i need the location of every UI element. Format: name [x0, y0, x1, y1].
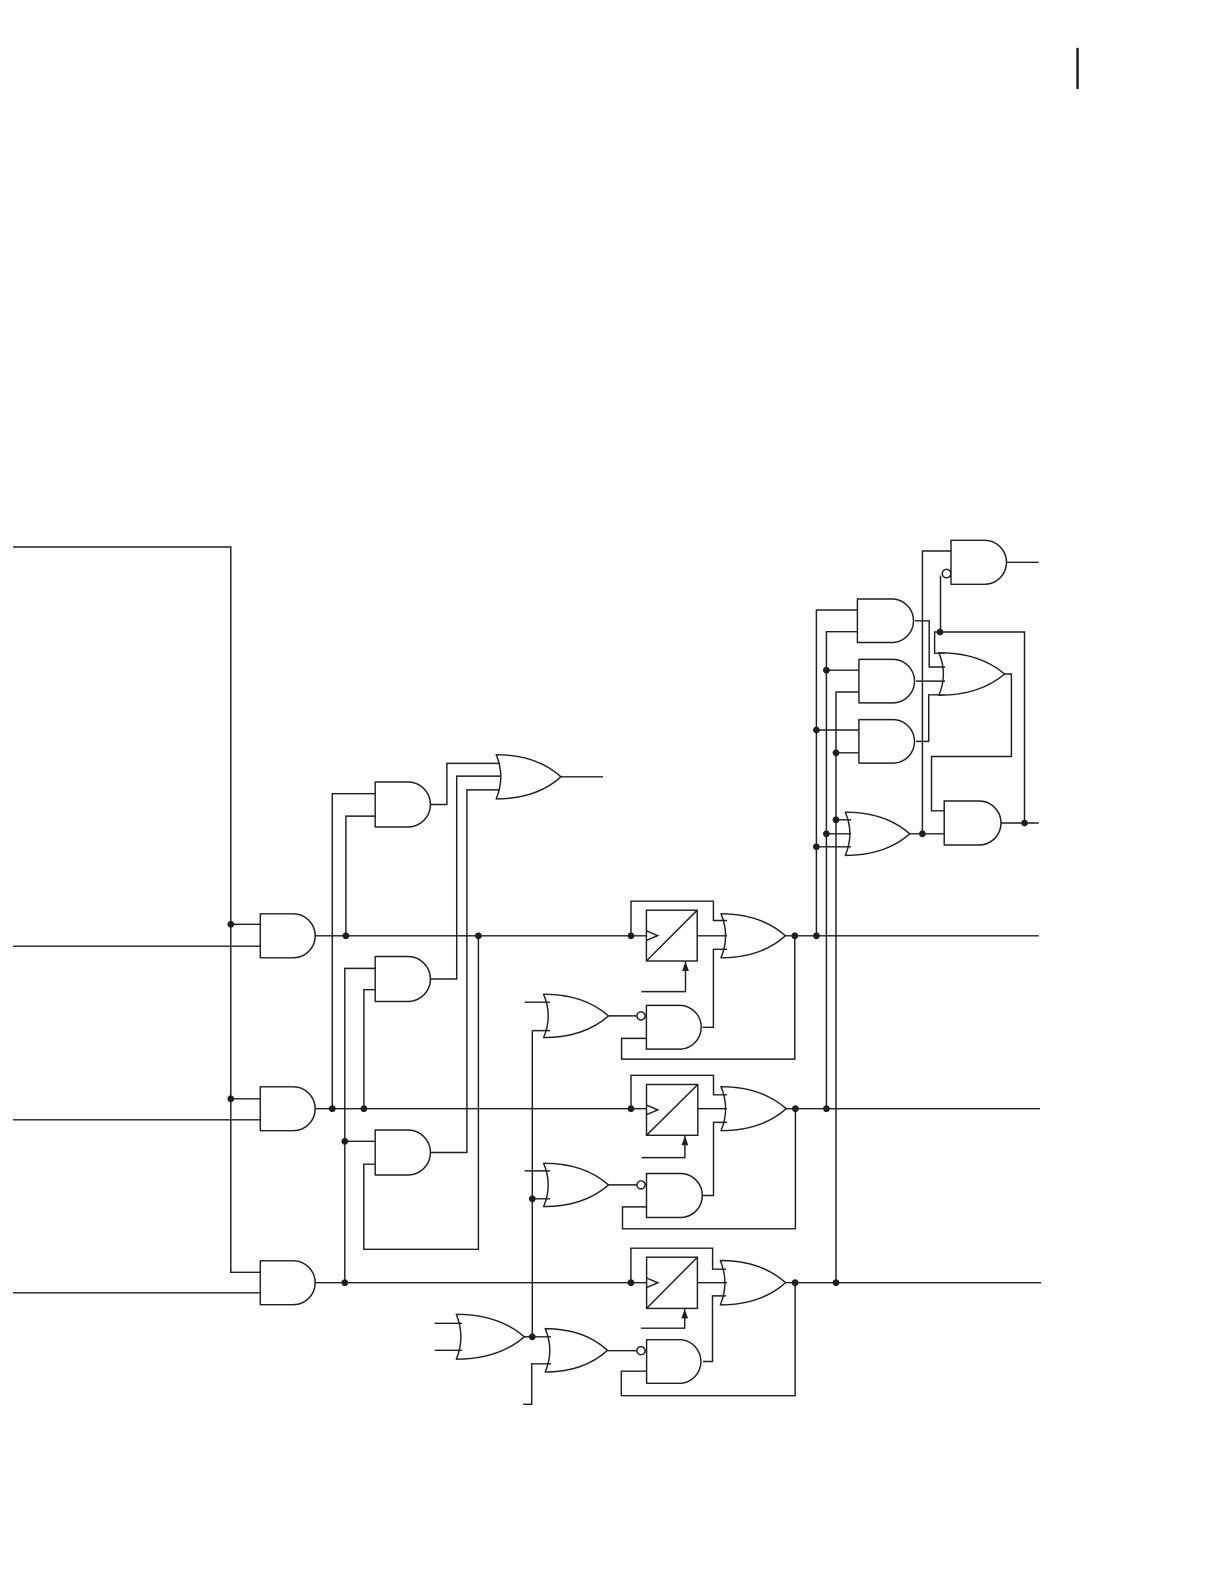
and-gate A1 (row1*row2) — [375, 782, 430, 827]
flip-flop FF3 (latch row3) — [647, 1257, 698, 1308]
wire U-top output — [1007, 561, 1039, 563]
or-gate OR3B (row3 enable OR) — [545, 1329, 607, 1372]
wire R2 to OR3b middle input — [826, 833, 851, 835]
wire row1 bus (OR1R out to right edge) — [785, 935, 1038, 937]
wire FF3 bypass over box to OR3R top — [631, 1248, 726, 1283]
nand-gate U-top (AND w/ inverted input) — [951, 540, 1007, 584]
clock arrow FF3 — [681, 1309, 688, 1319]
wire A2 out to OR-T — [430, 776, 500, 979]
wire node up to U-top bubble — [940, 576, 942, 632]
junction row2 / feedback — [792, 1105, 799, 1112]
wire OR3A top input stub — [435, 1322, 462, 1324]
wire OR2L top input stub — [525, 1170, 550, 1172]
wire right net R1 vertical — [816, 610, 857, 936]
junction input-L / G1 top — [227, 921, 234, 928]
bubble NAND3 input — [637, 1347, 645, 1355]
wire A1 top input from row2 net — [332, 794, 375, 1109]
wire OR3b out to AND4 — [910, 833, 944, 835]
wire bubble net (AND4 out up to node) — [940, 632, 1025, 823]
and-gate AND1 (R1*R2) — [857, 599, 913, 643]
junction row3 bus / FF3 bypass — [628, 1279, 635, 1286]
nand-gate NAND2 (row2 hold) — [647, 1174, 703, 1218]
wire input row1 (left edge) — [13, 945, 260, 947]
or-gate OR2c (carry OR, 4-input) — [939, 653, 1005, 696]
wire AND1 out to OR2c — [915, 621, 945, 667]
wire clk to OR1L bottom input — [532, 1030, 550, 1032]
or-gate OR2L (row2 enable OR) — [544, 1163, 609, 1206]
wire row2 feedback to NAND2 — [623, 1109, 796, 1229]
wire row1 feedback to NAND1 — [622, 936, 795, 1059]
wire NAND2 out to OR2R bottom — [702, 1122, 727, 1195]
wire input-L to G1 top input — [231, 923, 260, 925]
wire A3 bottom input from row1 net (detour) — [364, 936, 479, 1250]
wire R3 to AND3 bottom — [836, 752, 859, 754]
junction AND4 out / U-top bubble net — [1021, 820, 1028, 827]
wire U-top top-input vertical — [922, 551, 951, 834]
or-gate OR1L (row1 enable OR) — [544, 994, 609, 1037]
and-gate G2 (row2 input AND) — [260, 1087, 315, 1131]
and-gate A2 (row2*row3) — [375, 957, 430, 1002]
or-gate OR3A (row3 pre-OR) — [456, 1314, 524, 1359]
wire FF1 clock stub — [641, 961, 685, 992]
or-gate OR-T (majority output) — [496, 755, 561, 799]
wire FF2 clock stub — [642, 1135, 685, 1157]
clock arrow FF1 — [682, 962, 689, 972]
wire NAND1 out to OR1R bottom — [703, 949, 727, 1027]
junction R2 / row2 bus — [823, 1105, 830, 1112]
bubble NAND1 input — [637, 1012, 645, 1020]
wire row2 bus (OR2R out to right edge) — [786, 1108, 1040, 1110]
wire row1 FF1 out to OR1R — [697, 935, 727, 937]
wire row2 FF2 out to OR2R — [698, 1108, 727, 1110]
junction input-L / G2 top — [227, 1095, 234, 1102]
junction R3 / OR3b top — [833, 816, 840, 823]
nand-gate NAND1 (row1 hold) — [646, 1005, 701, 1049]
flip-flop FF1 (latch row1) — [646, 910, 697, 961]
wire OR3B out to NAND3 bubble — [608, 1350, 637, 1352]
junction row2 / A1 top — [329, 1105, 336, 1112]
flip-flop FF2 (latch row2) — [647, 1085, 698, 1136]
wire OR3A bottom input stub — [435, 1349, 462, 1351]
and-gate A3 (row1*row3) — [375, 1130, 430, 1175]
wire input row3 (left edge) — [13, 1292, 260, 1294]
junction R3 / row3 bus — [833, 1279, 840, 1286]
junction row2 / A2 bottom — [361, 1105, 368, 1112]
wire input row2 (left edge) — [13, 1119, 260, 1121]
wire OR1L top input stub — [525, 1001, 550, 1003]
wire row3 bus (OR3R out to right edge) — [786, 1282, 1041, 1284]
bubble U-top lower input — [942, 569, 951, 578]
wire R3 to OR3b top input — [836, 819, 851, 821]
junction row3-net / A3 top — [341, 1138, 348, 1145]
or-gate OR1R (row1 output OR) — [721, 914, 785, 958]
and-gate G3 (row3 input AND) — [260, 1261, 315, 1305]
junction row1 bus / FF1 bypass — [628, 932, 635, 939]
wire input-L to G2 top input — [231, 1098, 260, 1100]
junction R1 / AND3 top — [813, 727, 820, 734]
wire clock input stub to OR3B bottom — [523, 1364, 551, 1405]
wire NAND3 out to OR3R bottom — [703, 1296, 726, 1362]
junction R1 / row1 bus — [813, 932, 820, 939]
wire A1 out to OR-T — [430, 763, 500, 804]
wire row1 bus (G1 out to FF1) — [315, 935, 646, 937]
wire R2 to AND2 top — [826, 669, 859, 671]
junction row1 / A1 bottom — [343, 932, 350, 939]
wire FF2 bypass over box to OR2R top — [631, 1075, 727, 1108]
wire OR2c out to AND4 top — [932, 674, 1012, 811]
wire AND2 out to OR2c — [916, 680, 945, 682]
junction row2 bus / FF2 bypass — [628, 1105, 635, 1112]
and-gate AND2 (R2*R3) — [859, 659, 915, 703]
wire R1 to AND3 top — [816, 729, 859, 731]
wire row3 bus (G3 out to FF3) — [315, 1282, 646, 1284]
wire row3 feedback to NAND3 — [621, 1283, 795, 1396]
clock arrow FF2 — [682, 1136, 689, 1146]
junction R1 / OR3b bottom — [813, 843, 820, 850]
nand-gate NAND3 (row3 hold) — [647, 1340, 701, 1384]
wire OR2L out to NAND2 bubble — [609, 1184, 637, 1186]
wire clk vertical (OR3A out up to OR1L/OR2L) — [531, 1031, 533, 1337]
junction row3 / feedback — [792, 1279, 799, 1286]
wire right net R2 vertical — [826, 632, 857, 1109]
junction bubble net node — [937, 629, 944, 636]
and-gate AND3 (R1*R3) — [859, 720, 915, 764]
wire AND4 out to right edge — [1001, 822, 1039, 824]
junction row1 / feedback — [791, 932, 798, 939]
wire R1 to OR3b bottom input — [816, 846, 851, 848]
wire node jog to OR2c top input — [935, 632, 945, 653]
wire right net R3 vertical — [836, 692, 859, 1283]
wire node to OR3B top input — [532, 1336, 551, 1338]
or-gate OR3b (any-set OR, 3-input) — [845, 812, 910, 855]
wire A1 bottom input from row1 net — [346, 816, 375, 936]
wire clk to OR2L bottom input — [532, 1198, 550, 1200]
wire OR-T output stub — [561, 776, 603, 778]
wire input bus top-left L (to left AND column) — [13, 547, 260, 1272]
or-gate OR3R (row3 output OR) — [720, 1261, 785, 1305]
junction OR3b out / U-top input — [919, 830, 926, 837]
junction R2 / OR3b middle — [823, 830, 830, 837]
wire A3 top input — [345, 1140, 375, 1142]
wire row3 FF3 out to OR3R — [697, 1282, 727, 1284]
wire FF3 clock stub — [641, 1308, 685, 1328]
wire OR3A out to node — [524, 1336, 532, 1338]
bubble NAND2 input — [637, 1181, 645, 1189]
junction row3 / A2-A3 net — [341, 1279, 348, 1286]
page mark (vertical bar, top right) — [1076, 48, 1079, 89]
junction R3 / AND3 bottom — [833, 749, 840, 756]
wire A2 top input from row3 net — [345, 968, 375, 1282]
and-gate AND4 — [944, 801, 1001, 845]
wire row2 bus (G2 out to FF2) — [315, 1108, 646, 1110]
or-gate OR2R (row2 output OR) — [721, 1087, 786, 1131]
wire A3 out to OR-T — [430, 790, 500, 1153]
junction clk / OR2L bottom — [529, 1195, 536, 1202]
and-gate G1 (row1 input AND) — [260, 914, 315, 958]
junction OR3A out node — [529, 1333, 536, 1340]
wire OR1L out to NAND1 bubble — [609, 1015, 637, 1017]
junction row1 / A3 bottom — [475, 932, 482, 939]
junction R2 / AND2 top — [823, 667, 830, 674]
wire AND3 out to OR2c — [916, 695, 945, 742]
wire A2 bottom input from row2 net — [364, 990, 375, 1109]
wire FF1 bypass over box to OR1R top — [631, 901, 727, 936]
